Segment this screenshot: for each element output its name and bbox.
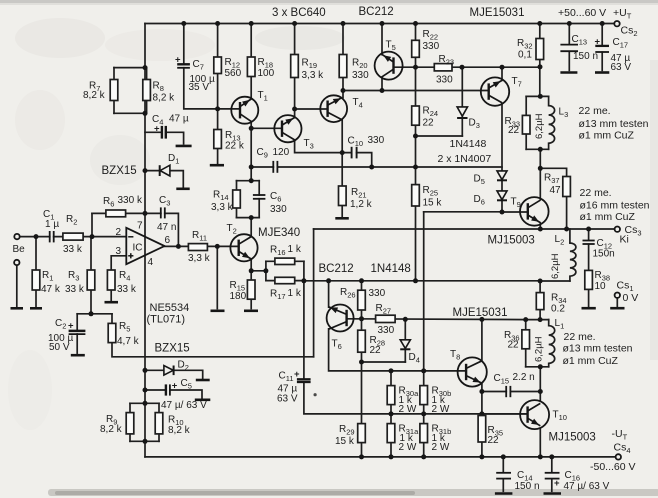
resistor R29 — [335, 424, 365, 447]
svg-text:2 W: 2 W — [399, 404, 417, 415]
resistor R38 — [585, 270, 610, 292]
svg-text:63 V: 63 V — [277, 394, 298, 405]
svg-text:3 x BC640: 3 x BC640 — [272, 7, 326, 19]
svg-text:3,3 k: 3,3 k — [302, 70, 325, 81]
resistor R16 — [270, 244, 302, 265]
svg-text:180: 180 — [230, 291, 247, 302]
capacitor C6 — [253, 191, 287, 215]
transistor T9 — [511, 197, 549, 226]
svg-text:6,2µH: 6,2µH — [534, 113, 545, 139]
wire: R4 to ground — [110, 290, 112, 300]
wire: T9 emitter — [539, 223, 541, 229]
wire: T7 emitter — [501, 67, 503, 80]
resistor R10 — [155, 413, 190, 436]
label 3 x BC640 — [272, 7, 326, 19]
resistor R13 — [214, 130, 245, 152]
ground bar C14 — [495, 492, 513, 495]
label T9 winding note 3 — [580, 211, 636, 223]
wire: C10 row and bend to bias wire — [342, 153, 372, 167]
label T9 winding note 2 — [580, 200, 650, 212]
wire: T6 emitter bend to lower driver row — [329, 329, 467, 371]
wire: R14 C6 top bracket — [237, 180, 260, 182]
wire: R34 column — [539, 281, 541, 320]
label T9 winding note — [580, 187, 612, 199]
svg-text:1 k: 1 k — [288, 244, 302, 255]
inductor L3 value text — [534, 107, 568, 140]
resistor R4 — [107, 270, 137, 295]
wire: R15 branch — [250, 271, 252, 309]
wire: lower bias rail to T10 base (already drawn part) junction stubs — [482, 413, 528, 415]
terminal Be input signal — [14, 234, 19, 239]
resistor R6 — [103, 195, 143, 217]
ground bar C4 — [176, 145, 192, 148]
svg-text:8,2 k: 8,2 k — [100, 424, 123, 435]
ground bar R1 — [30, 307, 42, 310]
svg-text:33 k: 33 k — [117, 284, 137, 295]
wire: C5 row — [145, 390, 202, 398]
wire: R37 link from T9 collector column — [540, 168, 566, 176]
terminal Cs3 Ki output — [615, 227, 620, 232]
svg-text:15 k: 15 k — [423, 198, 443, 209]
label Cs1 — [617, 280, 634, 294]
wire: R29 column — [361, 362, 363, 457]
svg-text:2 W: 2 W — [432, 404, 450, 415]
capacitor C16 — [545, 470, 610, 492]
stray mark — [314, 393, 317, 396]
transistor T10 — [520, 400, 567, 429]
svg-text:1,2 k: 1,2 k — [350, 199, 373, 210]
svg-text:330: 330 — [270, 204, 287, 215]
svg-text:330: 330 — [423, 41, 440, 52]
transistor T6 — [327, 305, 354, 352]
wire: T4 emitter column through R21 to ground — [341, 120, 343, 216]
wire: T3 emitter bend to T4 emitter node — [295, 140, 343, 153]
capacitor C12 — [583, 238, 615, 260]
svg-text:ø13 mm testen: ø13 mm testen — [563, 343, 633, 355]
transistor T3 — [274, 115, 313, 151]
wire: T8 collector riser — [481, 319, 483, 361]
wire: R19/T3 collector column — [294, 24, 296, 118]
wire: R30b/R31b column — [423, 371, 425, 457]
svg-text:47 n: 47 n — [157, 222, 176, 233]
wire: D4 column — [404, 319, 406, 362]
svg-text:22 me.: 22 me. — [580, 187, 612, 199]
wire: R8 leg — [146, 68, 148, 114]
capacitor C10 — [348, 135, 385, 158]
svg-text:330: 330 — [436, 75, 453, 86]
label MJ15003 T10 — [549, 432, 596, 444]
wire: L1 coil — [549, 320, 555, 367]
svg-text:NE5534: NE5534 — [150, 302, 190, 314]
label MJE340 — [258, 227, 300, 239]
wire: C13 column — [568, 24, 570, 71]
label 0 V — [623, 292, 639, 304]
wire: R32 column — [539, 24, 541, 97]
wire: R5 branch and long run to output column riser — [112, 314, 314, 357]
terminal Cs1 0V — [615, 293, 620, 298]
transistor T8 — [450, 349, 487, 387]
svg-text:330: 330 — [378, 325, 395, 336]
ground bar C13 stub — [560, 71, 577, 74]
label Cs3 — [625, 224, 642, 238]
ground bar R13 — [210, 164, 224, 167]
svg-text:150n: 150n — [593, 249, 615, 260]
resistor R2 — [63, 214, 83, 255]
wire: C4 row — [145, 132, 184, 144]
svg-text:-50...60 V: -50...60 V — [590, 461, 636, 473]
ground bar input — [11, 307, 24, 310]
wire: R33 leg — [525, 96, 527, 149]
svg-text:330: 330 — [368, 135, 385, 146]
wire: L3 coil — [549, 96, 555, 149]
label MJE15031 top — [470, 7, 525, 19]
label MJ15003 T9 — [488, 235, 535, 247]
svg-text:33 k: 33 k — [65, 284, 85, 295]
svg-text:4,7 k: 4,7 k — [117, 336, 140, 347]
svg-text:150 n: 150 n — [515, 481, 540, 492]
capacitor C13 — [560, 34, 598, 62]
wire: R16/R17 left bracket — [265, 261, 267, 280]
wire: L1/R36 bottom bracket — [526, 366, 549, 368]
capacitor C7 — [175, 55, 215, 94]
wire: T1 emitter column through R18 — [250, 24, 252, 99]
wire: T5 base to R22/R23/R24 node — [394, 66, 416, 68]
svg-text:10: 10 — [595, 281, 607, 292]
wire: riser output column x313 up to speaker rail corner — [313, 229, 315, 357]
resistor R15 — [230, 280, 256, 302]
svg-text:IC: IC — [133, 243, 143, 254]
svg-text:47 µ/ 63 V: 47 µ/ 63 V — [161, 400, 207, 411]
wire: bottom negative rail — [145, 456, 615, 458]
svg-text:6: 6 — [165, 235, 171, 246]
wire: R14 C6 bottom bracket — [237, 217, 260, 219]
svg-text:BZX15: BZX15 — [155, 343, 190, 355]
resistor R32 — [517, 38, 544, 61]
transistor T4 — [320, 95, 362, 122]
resistor R20 — [339, 55, 369, 82]
inductor L1 value text — [534, 318, 565, 362]
wire: Cs1 terminal stem — [616, 298, 618, 306]
label BC212 top — [359, 6, 394, 18]
wire: C12 column — [588, 229, 590, 306]
wire: T1 base — [218, 108, 240, 110]
svg-text:50 V: 50 V — [49, 342, 70, 353]
wire: L3/R33 bottom bracket — [526, 148, 548, 150]
label L1 winding note 3 — [563, 355, 619, 367]
wire: L2 bottom bracket to output node — [540, 280, 570, 282]
svg-text:2 W: 2 W — [399, 442, 417, 453]
svg-text:ø1 mm CuZ: ø1 mm CuZ — [580, 211, 636, 223]
svg-text:1 µ: 1 µ — [45, 219, 59, 230]
wire: L3/R33 top bracket — [526, 95, 548, 97]
svg-text:+: + — [172, 381, 178, 392]
resistor R8 — [143, 80, 175, 104]
label +50...60 V — [558, 7, 606, 19]
wire: R1 branch — [35, 237, 37, 309]
label MJE15031 mid — [453, 307, 508, 319]
label 2 x 1N4007 — [438, 153, 492, 165]
svg-text:100: 100 — [258, 68, 275, 79]
wire: R9 leg — [129, 403, 131, 441]
label BC212 mid — [319, 263, 354, 275]
svg-text:22: 22 — [508, 340, 520, 351]
svg-text:560: 560 — [225, 68, 242, 79]
label +UT — [613, 7, 632, 21]
wire: C7 column and bend to T1 base node — [184, 24, 218, 109]
resistor R7 — [83, 80, 118, 102]
resistor R25 — [412, 185, 443, 209]
label L3 winding note 3 — [579, 130, 635, 142]
svg-text:47 µ/ 63 V: 47 µ/ 63 V — [564, 481, 610, 492]
capacitor C17 — [595, 37, 632, 74]
resistor R35 — [478, 416, 503, 447]
svg-text:330 k: 330 k — [118, 195, 143, 206]
svg-text:6,2µH: 6,2µH — [534, 336, 545, 362]
svg-text:2: 2 — [116, 227, 122, 238]
svg-text:Ki: Ki — [620, 234, 629, 246]
wire: R17 row — [266, 280, 304, 282]
svg-text:7: 7 — [137, 221, 143, 232]
ground bar R15 — [244, 309, 258, 312]
wire: T10 emitter — [539, 429, 541, 457]
wire: T2 emitter node — [250, 259, 252, 271]
junction dots — [143, 65, 148, 70]
svg-text:2 x 1N4007: 2 x 1N4007 — [438, 153, 492, 165]
svg-text:35 V: 35 V — [189, 82, 210, 93]
svg-text:8,2 k: 8,2 k — [168, 425, 191, 436]
resistor R31a — [387, 424, 419, 454]
ground bar D1 — [176, 188, 189, 191]
resistor R37 — [544, 173, 570, 197]
svg-text:ø1 mm CuZ: ø1 mm CuZ — [563, 355, 619, 367]
resistor R30b — [420, 386, 451, 416]
wire: input to op-amp pin2 — [20, 236, 127, 238]
wire: top supply rail +UT — [145, 23, 614, 25]
label BZX15 D2 — [155, 343, 190, 355]
wire: left spine from rail to bottom rail — [144, 24, 146, 457]
diode D6 — [474, 191, 508, 207]
svg-text:+: + — [554, 478, 560, 489]
wire: R12/R13 column — [217, 24, 219, 164]
svg-text:150 n: 150 n — [573, 51, 598, 62]
label BZX15 D1 — [102, 165, 137, 177]
wire: T4 base from T3 collector node — [295, 108, 328, 110]
resistor R9 — [100, 413, 134, 435]
wire: R30a/R31a column — [390, 371, 392, 457]
svg-text:120: 120 — [273, 147, 290, 158]
wire: node C2-R5 horizontal — [77, 313, 112, 315]
svg-text:3: 3 — [116, 246, 122, 257]
svg-text:1N4148: 1N4148 — [450, 138, 487, 150]
ground bar C17 stub — [595, 71, 609, 74]
svg-text:47 k: 47 k — [41, 284, 61, 295]
transistor T2 — [227, 223, 258, 261]
transistor T1 — [231, 90, 267, 124]
label NE5534 — [150, 302, 190, 314]
ground bar R38 — [582, 307, 596, 310]
wire: R37 to speaker rail — [566, 197, 568, 230]
diode D4 — [400, 340, 420, 365]
wire: driver bias row R23 to R32 bottom — [416, 66, 541, 68]
ground bar C2 — [71, 354, 85, 357]
wire: T3 base — [251, 127, 282, 129]
wire: T5 collector — [381, 77, 383, 91]
label Cs2 — [621, 25, 638, 39]
ground bar R21 — [335, 217, 349, 220]
svg-text:BC212: BC212 — [319, 263, 354, 275]
wire: speaker output rail Ki — [314, 228, 615, 230]
ground bar C16 — [544, 492, 562, 495]
wire: T2 emitter to R16/R17 bracket — [251, 270, 266, 272]
wire: R20 column — [342, 24, 344, 91]
svg-text:Be: Be — [13, 244, 26, 255]
svg-text:+: + — [294, 369, 300, 380]
wire: T7 collector to D5/D6 chain and T9 base — [502, 103, 528, 212]
label Cs4 — [614, 442, 631, 456]
wire: C15 row — [482, 391, 540, 393]
capacitor C1 — [43, 209, 59, 242]
svg-text:0.2: 0.2 — [551, 304, 565, 315]
wire: D1 row — [145, 171, 183, 187]
label (TL071) — [147, 314, 186, 326]
wire: R9/R10 top bracket — [130, 402, 159, 404]
wire: bias riser T9 base node to lower rail — [423, 212, 425, 371]
svg-text:ø16 mm testen: ø16 mm testen — [580, 200, 650, 212]
capacitor C9 — [257, 147, 290, 173]
svg-text:3,3 k: 3,3 k — [188, 253, 211, 264]
svg-text:BC212: BC212 — [359, 6, 394, 18]
wire: T6 collector to output row — [328, 281, 330, 307]
wire: input terminal 2 drop to ground — [16, 265, 18, 308]
svg-text:22: 22 — [370, 345, 382, 356]
svg-text:(TL071): (TL071) — [147, 314, 186, 326]
svg-text:6,2µH: 6,2µH — [550, 253, 561, 279]
svg-text:2 W: 2 W — [432, 442, 450, 453]
wire: D3 bottom link — [416, 135, 463, 137]
wire: R22 column — [415, 24, 417, 41]
svg-text:MJ15003: MJ15003 — [549, 432, 596, 444]
label 1N4148 top — [450, 138, 487, 150]
wire: C17 column — [601, 24, 603, 71]
svg-text:ø13 mm testen: ø13 mm testen — [579, 118, 649, 130]
wire: output node row (feedback node to L2/R34) — [304, 280, 540, 282]
transistor T5 — [375, 40, 403, 80]
resistor R26 — [340, 287, 386, 310]
wire: C16 column — [551, 457, 553, 491]
wire: L2 stub from rail — [569, 229, 571, 243]
resistor R1 — [32, 270, 61, 295]
wire: T9 collector column — [539, 149, 541, 199]
svg-text:+: + — [595, 37, 601, 48]
capacitor C3 — [157, 195, 176, 233]
diode D2 — [164, 360, 189, 376]
wire: R10 leg — [158, 403, 160, 441]
ground bar C5 stub — [195, 398, 211, 401]
resistor R5 — [108, 321, 139, 347]
wire: C9 row from T1 column — [251, 166, 277, 168]
wire: R36 leg — [525, 320, 527, 367]
svg-text:+: + — [175, 55, 181, 66]
svg-text:MJE15031: MJE15031 — [470, 7, 525, 19]
terminal Cs2 +UT — [614, 21, 619, 26]
wire: R28/D4 bottom link — [362, 361, 406, 363]
wire: C3 row and drop to op-amp output — [145, 213, 178, 246]
capacitor C14 — [496, 470, 539, 492]
label Be — [13, 244, 26, 255]
svg-text:22 me.: 22 me. — [564, 331, 596, 343]
resistor R3 — [65, 270, 95, 295]
resistor R27 — [376, 303, 396, 336]
terminal Cs4 -UT — [616, 454, 621, 459]
wire: T5 emitter column to rail — [381, 24, 383, 55]
terminal Be input ground — [14, 260, 19, 265]
svg-text:2.2 n: 2.2 n — [513, 372, 535, 383]
svg-text:22: 22 — [508, 125, 520, 136]
svg-text:+50...60 V: +50...60 V — [558, 7, 606, 19]
wire: op-amp pin3 to R4 — [111, 256, 126, 270]
label L1 winding note 2 — [563, 343, 633, 355]
resistor R33 — [505, 115, 531, 136]
ground bar Cs1 — [610, 307, 624, 310]
resistor R18 — [247, 57, 274, 79]
svg-text:0,1: 0,1 — [518, 50, 532, 61]
wire: C8 branch — [216, 246, 218, 308]
svg-text:47: 47 — [550, 185, 562, 196]
wire: R26/R28 column (T6 base divider) — [361, 281, 363, 362]
svg-text:22: 22 — [488, 435, 500, 446]
capacitor C5 — [161, 378, 207, 411]
label L1 winding note — [564, 331, 596, 343]
wire: R6 feedback row — [92, 212, 145, 214]
svg-text:47 µ: 47 µ — [169, 114, 189, 125]
ground bar C8 — [211, 309, 225, 312]
resistor R11 — [188, 230, 211, 264]
capacitor C2 — [48, 318, 85, 353]
wire: R16/R17 right bracket — [303, 261, 305, 280]
wire: op-amp output to T2 base — [165, 245, 239, 247]
ground bar D2 stub — [196, 379, 210, 382]
wire: D3 column — [461, 67, 463, 136]
resistor R28 — [358, 330, 385, 356]
wire: R6 left leg down to pin2 node — [91, 213, 93, 236]
svg-text:22 k: 22 k — [225, 141, 245, 152]
resistor R30a — [387, 386, 419, 416]
diode D1 — [160, 153, 180, 176]
svg-text:3,3 k: 3,3 k — [211, 202, 234, 213]
svg-text:1 k: 1 k — [288, 288, 302, 299]
wire: R7 parallel R8 top bracket — [114, 67, 147, 69]
svg-text:330: 330 — [369, 288, 386, 299]
svg-text:+: + — [68, 321, 74, 332]
wire: T1 collector down through R14/C6 to T2 — [250, 122, 252, 237]
svg-text:MJ15003: MJ15003 — [488, 235, 535, 247]
resistor R21 — [339, 186, 373, 210]
svg-text:330: 330 — [352, 70, 369, 81]
svg-text:MJE340: MJE340 — [258, 227, 300, 239]
svg-text:33 k: 33 k — [63, 244, 83, 255]
wire: D2 row — [145, 370, 203, 378]
wire: bias link corner to D6/T9 base row — [424, 211, 502, 213]
label Ki — [620, 234, 629, 246]
resistor R22 — [412, 29, 440, 57]
wire: R3 branch to C2/R5 node — [90, 237, 92, 314]
svg-text:22: 22 — [423, 118, 435, 129]
wire: T6 bias row R27 to L1 bracket — [347, 318, 526, 321]
diode D3 — [457, 107, 480, 130]
wire: R7/R8 bottom bracket — [114, 112, 147, 114]
wire: R9/R10 bottom bracket — [130, 440, 159, 442]
transistor T7 — [481, 76, 522, 106]
